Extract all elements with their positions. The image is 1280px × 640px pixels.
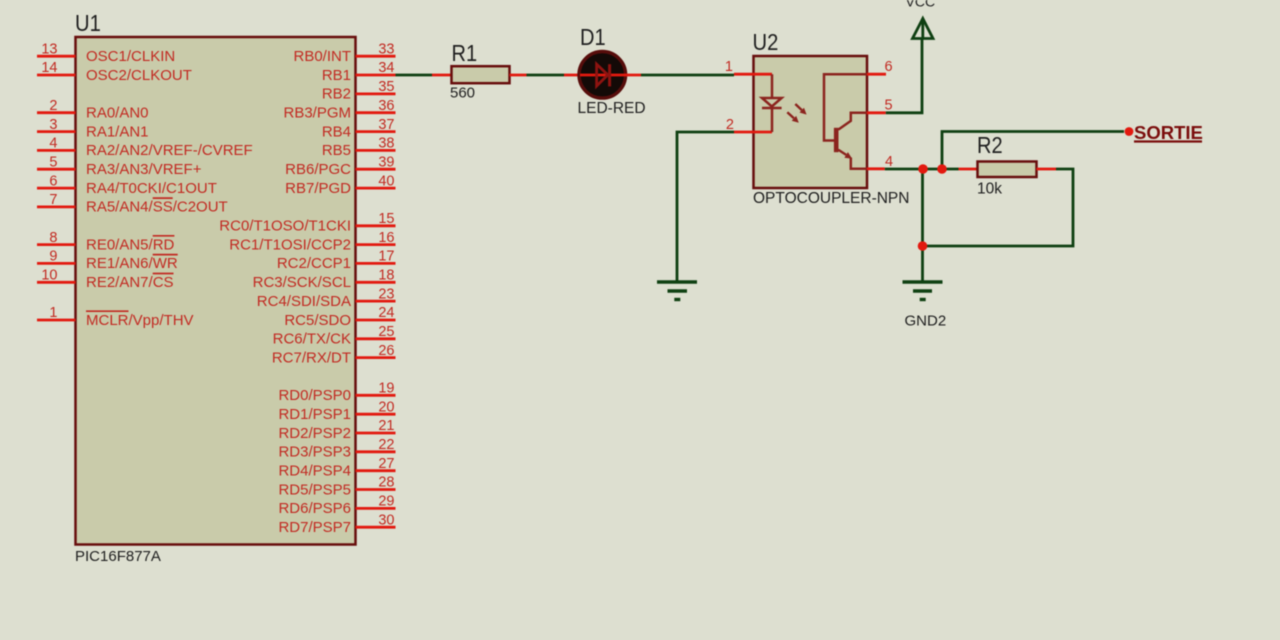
svg-text:RB2: RB2 — [322, 86, 351, 103]
U2 internal LED triangle — [762, 98, 782, 107]
svg-text:1: 1 — [49, 305, 57, 321]
svg-text:25: 25 — [378, 324, 394, 340]
svg-text:22: 22 — [378, 437, 394, 453]
svg-text:MCLR/Vpp/THV: MCLR/Vpp/THV — [86, 312, 194, 329]
overline for SS — [153, 197, 173, 199]
U1 pin 36 stub (RB3/PGM) — [356, 111, 396, 114]
D1 left pin stub — [564, 74, 580, 77]
svg-text:GND2: GND2 — [905, 313, 947, 330]
svg-text:3: 3 — [49, 117, 57, 133]
U2 pin 6 stub — [867, 73, 886, 76]
svg-text:10: 10 — [41, 268, 57, 284]
svg-text:38: 38 — [378, 136, 394, 152]
svg-text:560: 560 — [450, 85, 475, 102]
svg-text:R2: R2 — [977, 132, 1003, 158]
overline for WR — [153, 254, 178, 256]
overline for RD — [153, 235, 175, 237]
U1 pin 38 stub (RB5) — [356, 149, 396, 152]
svg-text:14: 14 — [41, 60, 57, 76]
svg-text:RC7/RX/DT: RC7/RX/DT — [272, 349, 351, 366]
U1 pin 28 stub (RD5/PSP5) — [356, 488, 396, 491]
U2 pin 1 stub — [734, 73, 772, 76]
U2 transistor base bar — [834, 128, 839, 152]
U1 pin 8 stub (RE0/AN5/RD) — [37, 243, 76, 246]
svg-text:OSC1/CLKIN: OSC1/CLKIN — [86, 48, 175, 65]
R2 left pin stub — [959, 168, 978, 171]
U2 light arrow 2 — [787, 112, 794, 118]
svg-text:SORTIE: SORTIE — [1134, 122, 1203, 143]
wire U2 pin2 to ground — [677, 132, 734, 282]
svg-text:RD3/PSP3: RD3/PSP3 — [278, 444, 351, 461]
U2 internal LED cathode bar — [762, 107, 782, 110]
svg-text:21: 21 — [378, 418, 394, 434]
U2 pin 4 stub — [867, 167, 885, 170]
svg-text:27: 27 — [378, 456, 394, 472]
U2 pin 5 stub — [867, 111, 886, 114]
U1 pin 26 stub (RC7/RX/DT) — [356, 356, 396, 359]
svg-text:RE1/AN6/WR: RE1/AN6/WR — [86, 255, 178, 272]
R1 left pin stub — [432, 74, 452, 77]
overline for MCLR — [86, 310, 129, 312]
ground symbol (left) — [657, 280, 697, 283]
svg-text:5: 5 — [49, 154, 57, 170]
svg-text:36: 36 — [378, 98, 394, 114]
wire R1 to D1 — [527, 74, 565, 77]
svg-text:40: 40 — [378, 173, 394, 189]
resistor R2 body — [978, 162, 1037, 178]
U1 pin 7 stub (RA5/AN4/SS/C2OUT) — [37, 205, 76, 208]
svg-text:39: 39 — [378, 154, 394, 170]
svg-text:4: 4 — [49, 136, 57, 152]
junction dot A (pin4/ground rail) — [918, 164, 928, 174]
svg-text:RB7/PGD: RB7/PGD — [285, 180, 351, 197]
svg-text:RA3/AN3/VREF+: RA3/AN3/VREF+ — [86, 161, 202, 178]
U1 pin 25 stub (RC6/TX/CK) — [356, 337, 396, 340]
svg-text:23: 23 — [378, 286, 394, 302]
svg-text:RC5/SDO: RC5/SDO — [284, 312, 351, 329]
wire RB1 to R1 — [396, 74, 433, 77]
wire R2 right side loop to ground rail — [923, 169, 1074, 246]
svg-text:RC6/TX/CK: RC6/TX/CK — [273, 331, 351, 348]
svg-text:RD0/PSP0: RD0/PSP0 — [278, 387, 351, 404]
U1 pin 24 stub (RC5/SDO) — [356, 319, 396, 322]
svg-text:6: 6 — [49, 173, 57, 189]
svg-text:35: 35 — [378, 79, 394, 95]
svg-text:30: 30 — [378, 512, 394, 528]
SORTIE underline — [1134, 140, 1202, 142]
svg-text:19: 19 — [378, 381, 394, 397]
U2 pin 2 stub — [734, 131, 772, 134]
svg-text:RD1/PSP1: RD1/PSP1 — [278, 406, 351, 423]
U1 pin 21 stub (RD2/PSP2) — [356, 432, 396, 435]
wire D1 to U2 pin1 — [641, 74, 734, 77]
U1 pin 15 stub (RC0/T1OSO/T1CKI) — [356, 224, 396, 227]
wire node up to SORTIE — [942, 132, 1124, 170]
svg-text:D1: D1 — [580, 24, 606, 50]
U1 pin 16 stub (RC1/T1OSI/CCP2) — [356, 243, 396, 246]
svg-text:RD5/PSP5: RD5/PSP5 — [278, 481, 351, 498]
LED D1 body — [579, 52, 626, 99]
svg-text:RC1/T1OSI/CCP2: RC1/T1OSI/CCP2 — [229, 236, 351, 253]
D1 diode triangle — [597, 64, 608, 86]
VCC power symbol (triangle) — [913, 19, 934, 39]
U1 pin 30 stub (RD7/PSP7) — [356, 526, 396, 529]
svg-text:RE2/AN7/CS: RE2/AN7/CS — [86, 274, 174, 291]
U1 pin 35 stub (RB2) — [356, 93, 396, 96]
svg-text:RD4/PSP4: RD4/PSP4 — [278, 463, 351, 480]
svg-text:RC2/CCP1: RC2/CCP1 — [277, 255, 351, 272]
wire node down to ground — [921, 169, 924, 282]
U1 pin 6 stub (RA4/T0CKI/C1OUT) — [37, 187, 76, 190]
svg-text:17: 17 — [378, 249, 394, 265]
svg-text:RD2/PSP2: RD2/PSP2 — [278, 425, 351, 442]
U1 pin 29 stub (RD6/PSP6) — [356, 507, 396, 510]
D1 anode/cathode lead through body — [580, 74, 641, 77]
svg-text:RC4/SDI/SDA: RC4/SDI/SDA — [257, 293, 351, 310]
U1 pin 20 stub (RD1/PSP1) — [356, 413, 396, 416]
svg-text:RB4: RB4 — [322, 123, 351, 140]
U1 pin 3 stub (RA1/AN1) — [37, 130, 76, 133]
U1 pin 40 stub (RB7/PGD) — [356, 187, 396, 190]
svg-text:2: 2 — [49, 98, 57, 114]
ground symbol GND2 — [903, 280, 943, 283]
svg-text:RA0/AN0: RA0/AN0 — [86, 105, 149, 122]
svg-text:RB3/PGM: RB3/PGM — [283, 105, 351, 122]
svg-text:RA2/AN2/VREF-/CVREF: RA2/AN2/VREF-/CVREF — [86, 142, 253, 159]
U1 pin 22 stub (RD3/PSP3) — [356, 450, 396, 453]
svg-text:16: 16 — [378, 230, 394, 246]
svg-text:RC0/T1OSO/T1CKI: RC0/T1OSO/T1CKI — [219, 218, 351, 235]
svg-text:34: 34 — [378, 60, 394, 76]
svg-text:15: 15 — [378, 211, 394, 227]
svg-text:OPTOCOUPLER-NPN: OPTOCOUPLER-NPN — [753, 190, 909, 207]
svg-text:RD7/PSP7: RD7/PSP7 — [278, 519, 351, 536]
overline for CS — [153, 273, 174, 275]
svg-text:6: 6 — [885, 59, 893, 75]
svg-text:PIC16F877A: PIC16F877A — [75, 548, 161, 565]
svg-text:RE0/AN5/RD: RE0/AN5/RD — [86, 236, 175, 253]
U1 pin 19 stub (RD0/PSP0) — [356, 394, 396, 397]
microcontroller U1 body — [76, 37, 356, 545]
svg-text:OSC2/CLKOUT: OSC2/CLKOUT — [86, 67, 192, 84]
U1 pin 4 stub (RA2/AN2/VREF-/CVREF) — [37, 149, 76, 152]
svg-text:RC3/SCK/SCL: RC3/SCK/SCL — [253, 274, 351, 291]
svg-text:28: 28 — [378, 475, 394, 491]
svg-text:9: 9 — [49, 249, 57, 265]
junction dot B (R2/SORTIE branch) — [937, 164, 947, 174]
U1 pin 9 stub (RE1/AN6/WR) — [37, 262, 76, 265]
U1 pin 13 stub (OSC1/CLKIN) — [37, 55, 76, 58]
U1 pin 2 stub (RA0/AN0) — [37, 111, 76, 114]
U2 phototransistor base wire from pin 6 — [824, 74, 867, 140]
svg-text:RB0/INT: RB0/INT — [293, 48, 351, 65]
svg-text:20: 20 — [378, 399, 394, 415]
U1 pin 1 stub (MCLR/Vpp/THV) — [37, 319, 76, 322]
junction dot C (R2 loop/ground rail) — [918, 241, 928, 251]
U2 light arrow 1 — [795, 104, 802, 110]
U1 pin 10 stub (RE2/AN7/CS) — [37, 281, 76, 284]
U1 pin 27 stub (RD4/PSP4) — [356, 469, 396, 472]
U2 internal LED wire — [771, 74, 774, 132]
svg-text:29: 29 — [378, 494, 394, 510]
svg-text:24: 24 — [378, 305, 394, 321]
svg-text:8: 8 — [49, 230, 57, 246]
svg-text:33: 33 — [378, 41, 394, 57]
U1 pin 23 stub (RC4/SDI/SDA) — [356, 300, 396, 303]
svg-text:7: 7 — [49, 192, 57, 208]
svg-text:RB5: RB5 — [322, 142, 351, 159]
svg-text:U2: U2 — [753, 29, 779, 55]
svg-text:13: 13 — [41, 41, 57, 57]
svg-text:37: 37 — [378, 117, 394, 133]
svg-text:RB1: RB1 — [322, 67, 351, 84]
svg-text:LED-RED: LED-RED — [578, 100, 646, 117]
U1 pin 17 stub (RC2/CCP1) — [356, 262, 396, 265]
optocoupler U2 body — [754, 56, 868, 188]
svg-text:RA5/AN4/SS/C2OUT: RA5/AN4/SS/C2OUT — [86, 199, 228, 216]
U1 pin 5 stub (RA3/AN3/VREF+) — [37, 168, 76, 171]
U2 transistor collector — [838, 113, 867, 130]
svg-text:RA1/AN1: RA1/AN1 — [86, 123, 149, 140]
U1 pin 34 stub (RB1) — [356, 74, 396, 77]
svg-text:RB6/PGC: RB6/PGC — [285, 161, 351, 178]
svg-text:5: 5 — [885, 98, 893, 114]
svg-text:18: 18 — [378, 268, 394, 284]
svg-text:1: 1 — [725, 59, 733, 75]
U1 pin 18 stub (RC3/SCK/SCL) — [356, 281, 396, 284]
svg-text:RD6/PSP6: RD6/PSP6 — [278, 500, 351, 517]
wire U2 pin5 to VCC — [886, 38, 922, 113]
U1 pin 14 stub (OSC2/CLKOUT) — [37, 74, 76, 77]
svg-text:VCC: VCC — [906, 0, 936, 10]
U1 pin 37 stub (RB4) — [356, 130, 396, 133]
R2 right pin stub — [1037, 168, 1057, 171]
svg-text:26: 26 — [378, 343, 394, 359]
U2 transistor emitter with arrow — [838, 150, 846, 155]
svg-text:R1: R1 — [452, 40, 478, 66]
R1 right pin stub — [510, 74, 527, 77]
wire U2 pin4 to node — [885, 168, 959, 171]
resistor R1 body — [452, 66, 510, 83]
svg-text:10k: 10k — [977, 181, 1002, 198]
svg-text:U1: U1 — [75, 10, 101, 36]
SORTIE terminal dot — [1125, 127, 1134, 136]
U1 pin 39 stub (RB6/PGC) — [356, 168, 396, 171]
svg-text:RA4/T0CKI/C1OUT: RA4/T0CKI/C1OUT — [86, 180, 217, 197]
U1 pin 33 stub (RB0/INT) — [356, 55, 396, 58]
D1 cathode bar — [608, 64, 611, 86]
